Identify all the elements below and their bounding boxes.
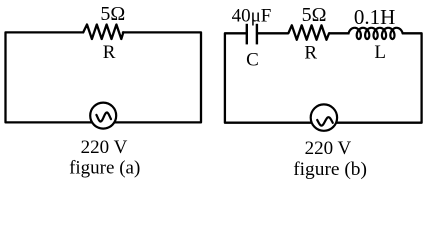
AC source V2 (figure b) <box>311 104 337 130</box>
wire between capacitor and resistor (figure b) <box>258 32 289 34</box>
figure (b) circuit loop wire <box>225 33 422 122</box>
svg-text:220 V: 220 V <box>305 138 352 159</box>
svg-text:L: L <box>374 42 386 63</box>
AC source V1 (figure a) <box>90 103 116 129</box>
sine symbol (figure a) <box>96 113 111 122</box>
capacitor C plate left <box>246 24 248 45</box>
resistor R (figure a) <box>83 25 123 40</box>
capacitor C plate right <box>256 24 258 45</box>
svg-text:R: R <box>103 42 116 63</box>
resistor R (figure b) <box>288 25 329 40</box>
svg-text:0.1H: 0.1H <box>354 5 395 29</box>
svg-text:figure (a): figure (a) <box>69 158 140 179</box>
svg-text:5Ω: 5Ω <box>302 4 327 26</box>
svg-text:C: C <box>246 50 259 71</box>
figure (a) circuit loop wire <box>6 32 202 122</box>
wire between resistor and inductor (figure b) <box>329 32 350 34</box>
inductor L coil <box>349 28 403 39</box>
svg-text:40μF: 40μF <box>232 5 272 26</box>
svg-text:R: R <box>304 42 317 63</box>
sine symbol (figure b) <box>317 117 333 125</box>
svg-text:figure (b): figure (b) <box>293 159 367 180</box>
svg-text:220 V: 220 V <box>81 137 128 158</box>
svg-text:5Ω: 5Ω <box>100 3 125 25</box>
